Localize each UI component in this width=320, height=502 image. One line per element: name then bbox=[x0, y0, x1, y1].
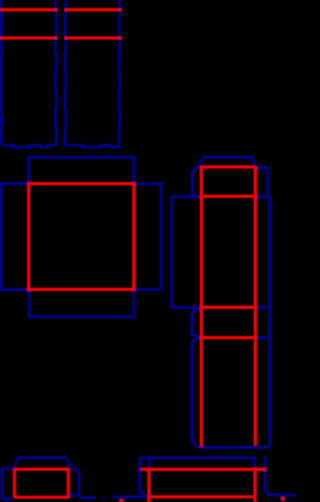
carton tuck flap top edge bbox=[200, 157, 255, 166]
carton glue strip notch 1 bbox=[256, 195, 269, 198]
cross box bottom flap bbox=[29, 290, 134, 317]
carton fold top bbox=[201, 165, 255, 168]
cross box top flap bbox=[29, 157, 134, 183]
cross box left flap bbox=[1, 184, 28, 290]
carton fold 4 bbox=[201, 336, 255, 339]
panel P1 crease line lower bbox=[1, 36, 56, 39]
carton left top tab bbox=[192, 165, 200, 197]
bottom carton top edge stub bbox=[148, 458, 151, 467]
carton glue strip top connector bbox=[255, 166, 267, 197]
bottom carton fold top bbox=[141, 468, 267, 471]
bottom carton cut right bbox=[253, 469, 256, 502]
small box lid top edge bbox=[14, 458, 71, 467]
bottom carton stray blue dot bbox=[103, 496, 105, 499]
carton glue strip right edge bbox=[268, 197, 271, 445]
bottom carton top edge with tuck slot bbox=[140, 458, 255, 469]
carton bottom tuck edge bbox=[192, 309, 270, 448]
panel P2 crease line top bbox=[66, 8, 121, 11]
bottom carton red corner mark bbox=[281, 497, 285, 501]
carton fold 2 bbox=[201, 195, 255, 198]
bottom carton left flap edge bbox=[113, 496, 146, 499]
small box left flap bbox=[2, 469, 13, 499]
panel P2 left edge (finger joints) bbox=[65, 0, 66, 146]
bottom carton right wall bbox=[265, 458, 296, 496]
carton fold 3 bbox=[201, 306, 255, 309]
carton cut line left bbox=[200, 166, 203, 447]
carton cut line right bbox=[254, 167, 257, 446]
bottom carton cut left bbox=[147, 469, 150, 502]
notch arrow 2 bbox=[256, 305, 261, 310]
bottom carton right wall stub bbox=[264, 456, 267, 459]
bottom carton left edge bbox=[140, 458, 147, 497]
panel P2 crease line lower bbox=[66, 36, 121, 39]
panel P2 right edge (finger joints) bbox=[117, 0, 121, 146]
bottom carton top edge stub tip bbox=[147, 466, 150, 469]
panel P1 bottom edge (finger joints) bbox=[1, 145, 55, 147]
panel P1 crease line top bbox=[1, 8, 56, 11]
cross box base square (cut) bbox=[29, 184, 134, 290]
cross box right flap bbox=[134, 184, 161, 290]
bottom carton right bottom stub bbox=[281, 495, 284, 502]
small box right tab bbox=[69, 468, 96, 497]
bottom carton red stub bbox=[119, 499, 123, 502]
bottom carton fold bottom bbox=[148, 495, 257, 498]
small box base (cut) bbox=[14, 469, 68, 498]
notch arrow 3 bbox=[256, 335, 261, 340]
carton left dust flap bbox=[172, 197, 201, 308]
carton glue strip notch 3 bbox=[256, 336, 269, 339]
panel P1 left edge bbox=[0, 0, 3, 145]
panel P1 left edge finger bumps bbox=[1, 14, 4, 126]
notch arrow 1 bbox=[256, 194, 261, 199]
panel P2 bottom edge (finger joints) bbox=[66, 145, 120, 147]
panel P1 right edge (finger joints) bbox=[54, 0, 58, 146]
carton glue strip notch 2 bbox=[256, 306, 269, 309]
